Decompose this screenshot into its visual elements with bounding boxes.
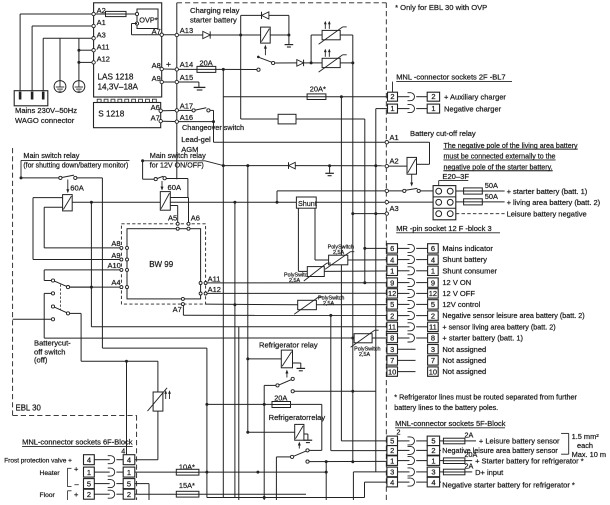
svg-text:5: 5 [431,300,435,309]
svg-text:8: 8 [390,334,394,343]
bus x326 down [325,462,327,500]
ground A2 net [325,172,334,174]
svg-text:A1: A1 [97,18,106,27]
label negative leisure sensor [440,449,441,451]
wire K1 to ground [288,35,290,44]
svg-text:negative pole of the starter b: negative pole of the starter battery. [444,163,553,171]
relay coil K6 [281,350,292,368]
svg-text:A12: A12 [208,285,221,294]
changeover switch contacts [192,109,195,112]
svg-text:50A: 50A [485,181,498,190]
svg-text:A7: A7 [173,305,182,314]
K7 actuating arrow [298,444,300,449]
6F socket pin 2 [84,489,135,499]
svg-text:12 V ON: 12 V ON [442,278,471,287]
wire starter battery to MR pin8 [44,337,353,339]
svg-text:+: + [74,464,79,473]
K6 actuating arrow [286,372,288,378]
pin A4 BW [120,286,123,289]
svg-text:4: 4 [121,446,125,455]
node A14 bus [222,68,225,71]
pin A7 LAS [160,33,163,36]
node K6 feed [246,357,249,360]
node PS bank left [310,61,313,64]
polyswitch PS-B [307,267,324,277]
svg-text:6: 6 [390,244,394,253]
svg-text:2: 2 [127,490,131,499]
svg-text:A7: A7 [151,113,160,122]
svg-text:1.5 mm²: 1.5 mm² [572,432,600,441]
svg-text:LAS 1218: LAS 1218 [98,73,134,82]
svg-text:Floor: Floor [40,492,56,499]
wire A7S-A16 [162,120,175,122]
border pin living battery [385,200,388,203]
ground K7 [304,439,313,441]
5F socket pin 4 [387,477,440,487]
svg-text:+ Leisure battery sensor: + Leisure battery sensor [479,437,560,446]
diode D4 [288,162,290,169]
svg-text:A8: A8 [152,61,161,70]
relay coil K3 [407,157,417,174]
svg-text:EBL 30: EBL 30 [16,404,42,413]
pin A7 S [159,119,162,122]
pin A3 [92,37,95,40]
switch2 arrow [161,181,163,188]
charger LAS 1218 [94,3,162,97]
MR socket pin 10 [387,367,486,376]
cutoff pole1 [44,280,51,282]
pin A11 BW [199,282,202,285]
svg-text:9: 9 [431,278,435,287]
svg-text:10: 10 [429,367,437,376]
6F socket pin 5 [84,479,135,489]
svg-text:15A*: 15A* [179,481,195,490]
PS5 bottom wire [157,411,159,460]
fuse 20A A14 [179,68,198,70]
svg-text:A16: A16 [180,113,193,122]
floor bracket [67,491,69,500]
svg-text:4: 4 [390,255,394,264]
MR socket pin 9 [387,278,471,287]
pin A11 [92,49,95,52]
node ground tap [328,164,331,167]
pin A2 border [385,164,388,167]
BW 99 outer dashed box [121,224,205,304]
wire A1 to K3 [389,141,430,143]
cutoff pole2 [51,305,54,308]
wire A3 from bus [351,212,354,215]
pin A10 BW [120,268,123,271]
svg-text:6: 6 [431,244,435,253]
K7 to ground [304,433,308,435]
svg-text:WAGO connector: WAGO connector [15,116,75,125]
EBL block dashed border left [12,148,14,415]
MR socket pin 8 [387,333,524,342]
fuse 20A* [223,96,307,98]
svg-text:3: 3 [390,345,394,354]
battery cut-off contacts [403,189,406,192]
svg-text:Leisure battery negative: Leisure battery negative [507,210,587,219]
node pin2 branch [329,314,332,317]
svg-text:2: 2 [431,92,435,101]
svg-text:A5: A5 [168,214,177,223]
MR socket pin 11 [387,322,556,331]
wire A2 to K3 [389,165,408,167]
svg-text:12: 12 [388,289,396,298]
svg-text:each: each [577,441,593,450]
plug 2F pin 2 [427,92,439,101]
svg-text:A6: A6 [191,214,200,223]
svg-text:1: 1 [390,267,394,276]
fuse to OVP [95,13,105,15]
svg-text:5: 5 [390,437,394,446]
svg-text:A3: A3 [390,204,399,213]
MR socket pin 6 [387,244,493,253]
svg-text:Refrigeratorrelay: Refrigeratorrelay [269,413,326,422]
svg-text:5: 5 [390,300,394,309]
pin A7 BW [181,297,184,300]
shunt leg left [297,208,299,271]
K1 actuating arrow [264,47,266,55]
svg-text:60A: 60A [70,183,84,192]
svg-text:4: 4 [431,478,435,487]
svg-text:must be connected externally t: must be connected externally to the [444,153,556,161]
svg-text:2: 2 [397,427,401,436]
svg-text:7: 7 [431,356,435,365]
heater bracket [67,468,69,486]
MR socket pin 12 [387,289,475,298]
svg-text:A12: A12 [97,55,110,64]
wire A4 [69,286,120,288]
svg-text:battery lines to the battery p: battery lines to the battery poles. [394,403,498,412]
charging relay switch [257,56,260,59]
node PE-A11 [77,49,80,52]
svg-text:2: 2 [431,446,435,455]
svg-text:+ sensor living area battery (: + sensor living area battery (batt. 2) [442,322,555,331]
wire A12 to pin12 [207,292,387,294]
cutoff aux contact D [51,318,54,321]
pin A16 [175,120,178,123]
svg-text:5: 5 [431,437,435,446]
svg-text:Negative charger: Negative charger [444,104,502,113]
PS bank left link [310,35,312,63]
K5 right lead [187,179,189,198]
node pin9 tap [363,281,366,284]
svg-text:E20–3F: E20–3F [442,172,469,181]
MR socket pin 1 [387,266,498,275]
wire A9-A15 [163,81,175,83]
pin A13 [175,33,178,36]
K6 to ground [293,362,301,364]
wire PS2 left [311,62,322,64]
svg-text:A9: A9 [152,74,161,83]
svg-text:1: 1 [87,468,91,477]
polyswitch PS3 [298,300,317,309]
relay coil K7 [295,424,304,440]
wire pole1 to A4 [70,286,92,288]
wire switch to E20 [420,190,433,192]
svg-text:+ living area battery (batt. 2: + living area battery (batt. 2) [507,198,601,207]
mechanical link dashed [59,285,61,310]
svg-text:2: 2 [390,92,394,101]
svg-text:Max. 10 m: Max. 10 m [572,450,607,459]
svg-text:2,5A: 2,5A [289,278,300,284]
fuse 2A row3 [440,471,444,473]
svg-text:Mains indicator: Mains indicator [442,244,493,253]
svg-text:A3: A3 [97,30,106,39]
svg-text:A11: A11 [208,275,221,284]
wire A17 to switch [179,109,193,111]
svg-text:4: 4 [390,478,394,487]
svg-text:+ starter battery (batt. 1): + starter battery (batt. 1) [507,187,588,196]
svg-text:2A: 2A [465,430,474,439]
wire switch to D3 [275,62,297,64]
svg-text:50A: 50A [485,192,498,201]
pin A12 [92,61,95,64]
svg-text:1: 1 [127,468,131,477]
svg-text:OVP*: OVP* [139,16,157,25]
svg-text:Not assigned: Not assigned [442,356,486,365]
bus x235 [233,201,236,204]
wire pole left down [276,456,290,458]
svg-text:A11: A11 [97,42,110,51]
node K1 right [287,34,290,37]
svg-text:MNL -connector sockets 2F -BL7: MNL -connector sockets 2F -BL7 [396,73,505,82]
bus negative x376 [375,109,377,472]
earth symbol 1 drop [59,38,61,80]
svg-text:Negative sensor leisure area b: Negative sensor leisure area battery (ba… [442,311,584,320]
svg-text:A10: A10 [108,261,121,270]
svg-text:3: 3 [431,345,435,354]
freewheel diode D2 [240,15,242,35]
svg-text:The negative pole of the livin: The negative pole of the living area bat… [444,142,579,150]
svg-text:9: 9 [390,278,394,287]
wire A13 line [179,34,203,36]
wire 5F-4 [365,481,387,483]
EBL block dashed border bottom-left [13,414,137,416]
polyswitch PS1 [322,30,340,39]
contact from A14 [257,68,260,71]
pin A15 [175,80,178,83]
svg-text:D+ input: D+ input [475,468,504,477]
svg-text:MNL-connector sockets 5F-Block: MNL-connector sockets 5F-Block [395,419,506,428]
svg-text:starter battery: starter battery [190,16,237,25]
pin A1 border [385,141,388,144]
MR socket pin 3 [387,345,486,354]
svg-text:Negative leisure area battery: Negative leisure area battery sensor [442,446,558,455]
svg-text:1: 1 [390,456,394,465]
svg-text:S 1218: S 1218 [98,110,124,119]
pin A5 [176,222,179,225]
svg-text:60A: 60A [168,183,182,192]
wire A10 [43,270,45,281]
switch 1 [21,177,59,179]
ground A15 [194,86,206,88]
bracket wire size [568,433,570,454]
pin A8 LAS [160,67,163,70]
svg-text:11: 11 [429,323,437,332]
wire x122 to 6F-4 [125,360,128,363]
MR socket pin 2 [387,311,585,320]
mains WAGO connector [14,91,48,106]
wire A5 BW [170,205,177,207]
node A13-relay-left [239,34,242,37]
fuse 50A row2 [456,201,464,203]
wire A8 [44,247,120,249]
wire A7-A13 [163,34,175,36]
svg-text:1: 1 [431,267,435,276]
5F socket pin 2 [387,446,440,456]
border pin starter [385,189,388,192]
node K7 feed [246,431,249,434]
charging relay coil K1 [261,27,271,43]
svg-text:A13: A13 [180,26,193,35]
svg-text:2: 2 [390,311,394,320]
EBL left edge line [176,3,178,179]
connector symbol 2F-2 [398,96,410,98]
LAS-S connection comb [97,99,156,102]
wire A6-A17 [162,110,175,112]
wire A8-A14 [163,68,175,70]
svg-text:2: 2 [87,490,91,499]
K4 left lead upper to A9 [33,197,63,199]
bus x239 [238,327,240,500]
ground K6 [297,367,306,369]
pin A3 border [385,212,388,215]
svg-text:2,5A: 2,5A [359,352,370,358]
EBL block dashed border top [177,2,386,4]
5F socket pin 5 [387,436,440,446]
svg-text:(off): (off) [34,355,48,364]
MR socket pin 7 [387,356,486,365]
svg-text:MNL-connector sockets 6F-Block: MNL-connector sockets 6F-Block [22,438,133,447]
fuse 50A row1 [456,190,464,192]
svg-text:A8: A8 [111,239,120,248]
pin A8 BW [120,246,123,249]
relay coil K2 (mains indicator) [278,114,296,124]
svg-text:12V control: 12V control [442,300,480,309]
svg-text:for 12V ON/OFF): for 12V ON/OFF) [150,162,204,170]
5F socket pin 3 [387,467,440,477]
svg-text:20A*: 20A* [310,84,326,93]
svg-text:5: 5 [87,480,91,489]
svg-text:A15: A15 [180,73,193,82]
svg-text:2: 2 [431,311,435,320]
svg-text:Heater: Heater [40,470,61,477]
socket 2F pin 1 [388,104,398,113]
bus x248 [247,166,249,433]
E20-3F terminal block [433,186,456,220]
svg-text:BW 99: BW 99 [149,260,174,269]
wire switch to fuse 20A [264,384,276,386]
svg-text:A17: A17 [180,102,193,111]
svg-text:+: + [74,490,79,499]
svg-text:11: 11 [388,323,396,332]
label negative starter refrigerator [440,481,441,483]
node negative bus [374,164,377,167]
bus A14 net x223 [222,69,224,497]
pin A17 [175,109,178,112]
pin A6 [187,222,190,225]
svg-text:1: 1 [431,104,435,113]
svg-text:1: 1 [431,456,435,465]
pin A2 [92,12,95,15]
bus x207 down [206,348,208,497]
bus x264 down [263,404,265,500]
PTC bottom left [157,361,159,392]
svg-text:Shunt consumer: Shunt consumer [442,266,497,275]
svg-text:+: + [166,59,171,69]
wire mains PE to A3 [42,38,44,90]
main switch relay coil K5 [160,192,170,211]
wire A9 [33,259,120,261]
svg-text:+ Starter battery for refriger: + Starter battery for refrigerator * [475,457,584,466]
svg-text:* Only for EBL 30 with OVP: * Only for EBL 30 with OVP [395,3,487,12]
socket 2F pin 2 [392,82,394,93]
BW 99 inner box [127,229,201,299]
refrigerator switch 2 [306,449,309,452]
svg-text:(for shutting down/battery mon: (for shutting down/battery monitor) [23,163,128,170]
shunt top wire [276,201,279,204]
NO contact 2 wire to 5F-1 [306,460,309,463]
wire A2 net [205,161,223,166]
svg-text:4: 4 [431,255,435,264]
svg-text:12: 12 [429,289,437,298]
OVP module [137,9,158,29]
earth symbol 1 [54,81,66,93]
wire to MR pin6 [363,247,366,250]
MR socket pin 4 [387,255,487,264]
svg-text:A4: A4 [111,278,120,287]
pin A1 [92,24,95,27]
svg-text:A7: A7 [152,27,161,36]
svg-text:Battery cut-off relay: Battery cut-off relay [410,129,476,138]
wire A6 BW [188,198,190,223]
pin A12 BW [199,292,202,295]
cutoff aux contact C [51,292,54,295]
svg-text:Lead-gel: Lead-gel [181,135,211,144]
svg-text:14,3V–18A: 14,3V–18A [98,83,139,92]
MR socket pin 5 [387,300,481,309]
wire 2F-1 to A2 net [376,108,388,110]
svg-text:A9: A9 [111,251,120,260]
wire A11 to pin9 [207,282,387,284]
svg-text:Frost protection valve +: Frost protection valve + [4,457,72,464]
svg-text:3: 3 [390,468,394,477]
svg-text:7: 7 [390,356,394,365]
node A16 branch [212,120,215,123]
diode D1 [203,31,210,38]
fuse 15A* [135,493,177,495]
NO contact wire [291,390,294,393]
svg-text:8: 8 [431,334,435,343]
connector symbol 2F-1 [398,108,410,110]
svg-text:5: 5 [127,480,131,489]
pin A9 LAS [160,80,163,83]
shunt box [296,197,316,208]
svg-text:Batterycut-: Batterycut- [34,338,71,347]
wire shunt top to switch [277,190,403,192]
svg-text:Main switch relay: Main switch relay [23,151,79,160]
plug 2F pin 1 [427,104,439,113]
svg-text:Mains 230V–50Hz: Mains 230V–50Hz [15,106,77,115]
switch 2 [143,178,154,180]
bus A13 net to K2 x241 [240,35,242,119]
ground K1 [285,44,294,46]
shunt leg right [314,208,316,260]
svg-text:2: 2 [390,446,394,455]
bus 20A* to 5F-5 x341 [340,95,343,98]
